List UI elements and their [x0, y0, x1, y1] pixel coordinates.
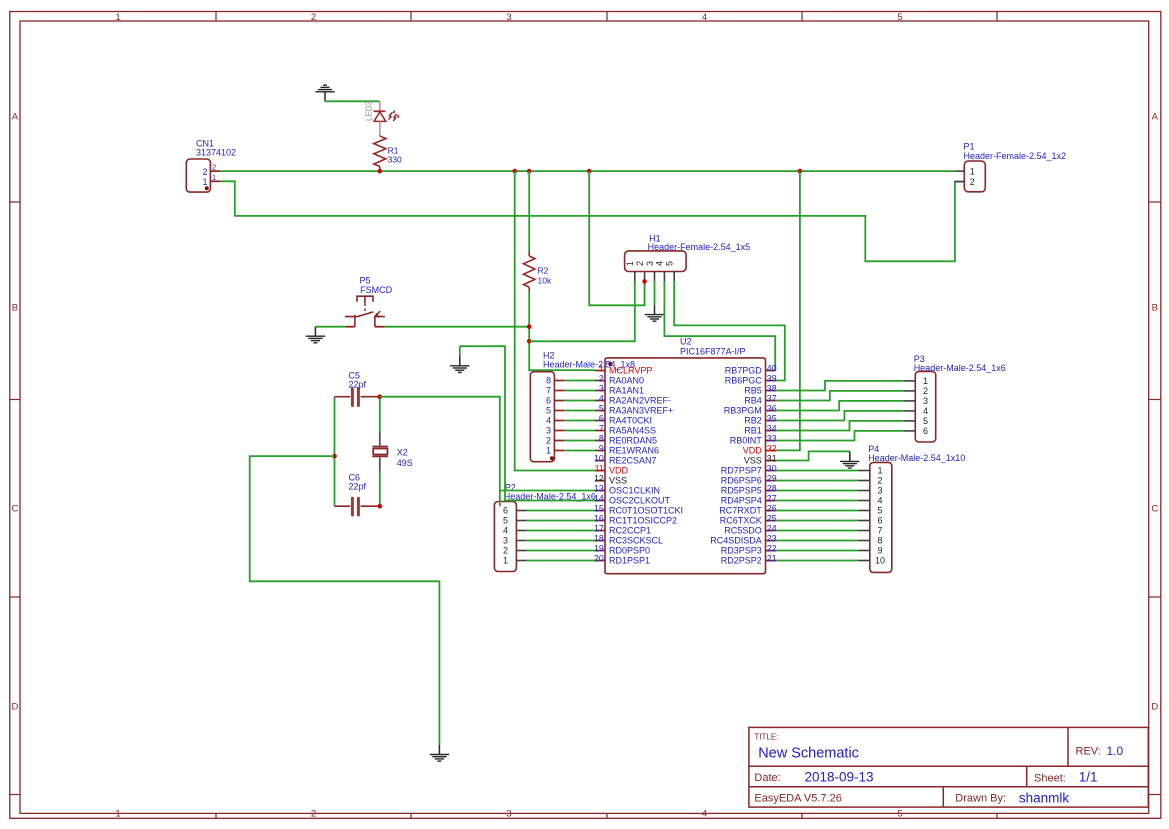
svg-text:21: 21	[767, 553, 777, 563]
CN1 pin 2 stub	[210, 170, 220, 172]
svg-text:3: 3	[503, 536, 508, 546]
P3 pin numbers	[923, 376, 928, 436]
header P3 box	[915, 371, 935, 442]
svg-text:4: 4	[599, 393, 604, 403]
svg-text:RD7PSP7: RD7PSP7	[721, 466, 762, 476]
svg-text:RC5SDO: RC5SDO	[724, 526, 762, 536]
svg-text:4: 4	[702, 12, 707, 23]
title block table	[749, 727, 1148, 807]
svg-text:RB5: RB5	[744, 386, 762, 396]
svg-text:EasyEDA V5.7.26: EasyEDA V5.7.26	[754, 793, 841, 805]
U2 pin stubs	[595, 371, 776, 561]
svg-text:RD3PSP3: RD3PSP3	[721, 546, 762, 556]
svg-text:FSMCD: FSMCD	[360, 285, 392, 295]
svg-text:RB3PGM: RB3PGM	[724, 406, 762, 416]
H1 pin numbers	[625, 261, 674, 266]
svg-text:1.0: 1.0	[1107, 744, 1124, 758]
svg-text:RC3SCKSCL: RC3SCKSCL	[609, 536, 663, 546]
svg-text:RA4T0CKI: RA4T0CKI	[609, 416, 652, 426]
svg-text:5: 5	[503, 516, 508, 526]
svg-text:D: D	[1151, 701, 1158, 712]
svg-text:RA5AN4SS: RA5AN4SS	[609, 426, 656, 436]
svg-text:49S: 49S	[397, 458, 413, 468]
wire U2 pin31 VSS to ground	[776, 451, 850, 460]
svg-text:Header-Female-2.54_1x2: Header-Female-2.54_1x2	[964, 151, 1067, 161]
svg-text:shanmlk: shanmlk	[1019, 791, 1070, 806]
junction P5/MCLR	[527, 324, 532, 329]
svg-text:2: 2	[546, 436, 551, 446]
CN1 polarity dot	[205, 186, 209, 190]
capacitor C5	[335, 389, 380, 406]
svg-text:PIC16F877A-I/P: PIC16F877A-I/P	[680, 347, 746, 357]
svg-text:A: A	[1152, 111, 1159, 122]
svg-text:1: 1	[625, 261, 635, 266]
ground (H1 pin3)	[645, 305, 664, 321]
svg-text:10: 10	[594, 453, 604, 463]
wire CN1 pin1 to P1 pin2	[220, 181, 964, 261]
svg-text:5: 5	[897, 809, 902, 820]
svg-text:3: 3	[506, 809, 511, 820]
wire P5 right to MCLR net	[385, 326, 530, 328]
svg-text:15: 15	[594, 503, 604, 513]
svg-text:1/1: 1/1	[1079, 770, 1098, 785]
svg-text:2: 2	[212, 163, 216, 172]
svg-text:330: 330	[388, 155, 402, 165]
svg-text:4: 4	[702, 809, 707, 820]
wire R2 bottom to U2 pin1 (MCLR)	[529, 291, 595, 370]
svg-text:RD2PSP2: RD2PSP2	[721, 556, 762, 566]
svg-text:36: 36	[767, 403, 777, 413]
svg-text:D: D	[11, 701, 18, 712]
svg-text:Header-Female-2.54_1x5: Header-Female-2.54_1x5	[648, 242, 751, 252]
wire ground to LED3	[325, 100, 380, 102]
svg-text:3: 3	[506, 12, 511, 23]
svg-text:RE2CSAN7: RE2CSAN7	[609, 456, 657, 466]
resistor R1	[374, 136, 386, 167]
svg-text:RB2: RB2	[744, 416, 762, 426]
svg-text:6: 6	[546, 396, 551, 406]
junction VDD-right/rail	[798, 169, 803, 174]
svg-text:RD6PSP6: RD6PSP6	[721, 476, 762, 486]
svg-text:B: B	[1152, 302, 1158, 313]
wire X2 top green	[379, 397, 381, 433]
svg-text:6: 6	[877, 516, 882, 526]
svg-text:RC1T1OSICCP2: RC1T1OSICCP2	[609, 516, 677, 526]
svg-text:10: 10	[875, 556, 885, 566]
header P2 box	[494, 502, 516, 572]
junction C6/X2	[378, 504, 383, 509]
svg-text:32: 32	[767, 443, 777, 453]
wire X2 bottom green	[379, 471, 381, 506]
svg-text:Header-Male-2.54_1x10: Header-Male-2.54_1x10	[868, 453, 965, 463]
svg-text:RA2AN2VREF-: RA2AN2VREF-	[609, 396, 671, 406]
svg-text:1: 1	[877, 466, 882, 476]
svg-text:RC6TXCK: RC6TXCK	[720, 516, 762, 526]
svg-text:4: 4	[923, 406, 928, 416]
svg-text:X2: X2	[397, 448, 408, 458]
svg-text:1: 1	[202, 177, 207, 187]
svg-text:27: 27	[767, 493, 777, 503]
svg-text:REV:: REV:	[1076, 746, 1101, 758]
svg-text:6: 6	[599, 413, 604, 423]
svg-text:9: 9	[877, 546, 882, 556]
wire OSC1 to U2 pin13	[500, 490, 595, 492]
svg-text:2: 2	[311, 12, 316, 23]
svg-text:19: 19	[594, 543, 604, 553]
P4 pin numbers	[875, 466, 885, 566]
svg-text:OSC1CLKIN: OSC1CLKIN	[609, 486, 660, 496]
svg-text:RD4PSP4: RD4PSP4	[721, 496, 762, 506]
svg-text:10k: 10k	[538, 276, 552, 286]
svg-text:RB6PGC: RB6PGC	[725, 376, 763, 386]
svg-text:4: 4	[546, 416, 551, 426]
svg-text:6: 6	[503, 506, 508, 516]
U2 pin names	[609, 366, 762, 566]
svg-text:OSC2CLKOUT: OSC2CLKOUT	[609, 496, 671, 506]
svg-text:38: 38	[767, 383, 777, 393]
svg-text:C: C	[1151, 503, 1158, 514]
svg-text:30: 30	[767, 463, 777, 473]
H2 pin1 marker dot	[550, 456, 554, 460]
svg-text:5: 5	[877, 506, 882, 516]
junction C5/X2	[378, 394, 383, 399]
svg-text:RA0AN0: RA0AN0	[609, 376, 644, 386]
svg-text:6: 6	[923, 426, 928, 436]
svg-text:33: 33	[767, 433, 777, 443]
svg-text:8: 8	[599, 433, 604, 443]
junction H1 pin2	[642, 279, 647, 284]
connector CN1 box	[186, 159, 210, 192]
H2 pin numbers	[546, 376, 551, 456]
ground (P5 left)	[306, 327, 325, 343]
svg-text:28: 28	[767, 483, 777, 493]
svg-text:1: 1	[115, 809, 120, 820]
svg-text:39: 39	[767, 373, 777, 383]
svg-text:22pf: 22pf	[349, 482, 367, 492]
svg-text:1: 1	[923, 376, 928, 386]
svg-text:2: 2	[599, 373, 604, 383]
svg-text:3: 3	[877, 486, 882, 496]
wire H1 pin5 to U2 pin39	[674, 282, 785, 381]
svg-text:VSS: VSS	[744, 456, 762, 466]
svg-text:29: 29	[767, 473, 777, 483]
wire VDD-right to U2 pin32	[776, 171, 800, 450]
wire rail riser to H1 pin2	[589, 171, 644, 305]
wire rail to R2 top	[528, 171, 530, 252]
svg-text:7: 7	[546, 386, 551, 396]
H2 pin stubs	[554, 381, 564, 451]
svg-text:22: 22	[767, 543, 777, 553]
svg-text:2: 2	[202, 167, 207, 177]
P2 pin numbers	[503, 506, 508, 566]
svg-text:Header-Male-2.54_1x6: Header-Male-2.54_1x6	[914, 363, 1006, 373]
svg-text:RB4: RB4	[744, 396, 762, 406]
frame row letters A-D	[11, 111, 1158, 712]
svg-text:17: 17	[594, 523, 604, 533]
svg-text:2: 2	[923, 386, 928, 396]
svg-text:4: 4	[877, 496, 882, 506]
wires P2 to U2 pins 15-20	[526, 511, 595, 561]
svg-text:U2: U2	[680, 337, 692, 347]
svg-text:P5: P5	[360, 275, 371, 285]
svg-text:31374102: 31374102	[196, 147, 236, 157]
svg-text:40: 40	[767, 363, 777, 373]
svg-text:RB0INT: RB0INT	[730, 436, 763, 446]
svg-text:11: 11	[595, 463, 604, 473]
P1 pin2 stub	[955, 181, 964, 183]
svg-text:5: 5	[665, 261, 675, 266]
wire P5 left to ground	[315, 326, 345, 328]
wires U2 RB5-RB0 to P3	[776, 381, 904, 441]
svg-text:Date:: Date:	[754, 772, 780, 784]
ground (bottom)	[430, 745, 449, 761]
svg-text:5: 5	[546, 406, 551, 416]
svg-text:31: 31	[767, 453, 777, 463]
svg-text:1: 1	[546, 446, 551, 456]
svg-text:2: 2	[877, 476, 882, 486]
wire H1 pin2 down	[644, 281, 646, 305]
svg-text:1: 1	[115, 12, 120, 23]
ground (inverted, above LED3)	[315, 85, 334, 101]
svg-text:RE0RDAN5: RE0RDAN5	[609, 436, 657, 446]
svg-text:RC4SDISDA: RC4SDISDA	[710, 536, 762, 546]
header P4 box	[870, 462, 892, 572]
svg-text:35: 35	[767, 413, 777, 423]
H1 pin stubs	[635, 272, 674, 282]
svg-text:RB1: RB1	[744, 426, 762, 436]
svg-text:RD1PSP1: RD1PSP1	[609, 556, 650, 566]
junction H1pin1/MCLR	[527, 339, 532, 344]
svg-text:VSS: VSS	[609, 476, 627, 486]
svg-text:RA1AN1: RA1AN1	[609, 386, 644, 396]
svg-text:8: 8	[877, 536, 882, 546]
svg-text:2: 2	[311, 809, 316, 820]
svg-text:25: 25	[767, 513, 777, 523]
svg-text:LED3: LED3	[365, 100, 374, 121]
svg-text:5: 5	[897, 12, 902, 23]
svg-text:26: 26	[767, 503, 777, 513]
svg-text:C: C	[11, 503, 18, 514]
P2 pin stubs	[516, 511, 526, 561]
svg-text:3: 3	[599, 383, 604, 393]
svg-text:16: 16	[594, 513, 604, 523]
crystal X2	[372, 433, 388, 472]
svg-text:Drawn By:: Drawn By:	[955, 793, 1006, 805]
svg-text:1: 1	[970, 167, 975, 177]
svg-text:RD5PSP5: RD5PSP5	[721, 486, 762, 496]
svg-text:RD0PSP0: RD0PSP0	[609, 546, 650, 556]
P4 pin stubs	[858, 471, 870, 561]
svg-text:34: 34	[767, 423, 777, 433]
svg-text:4: 4	[503, 526, 508, 536]
wire H1 pin3 to ground	[654, 282, 656, 305]
LED LED3	[374, 101, 400, 136]
svg-text:4: 4	[655, 261, 665, 266]
svg-text:20: 20	[594, 553, 604, 563]
svg-text:2018-09-13: 2018-09-13	[805, 770, 874, 785]
header H2 box	[530, 372, 554, 462]
junction R1/rail	[378, 169, 383, 174]
U2 pin1 marker dot	[608, 362, 612, 366]
wire C5 left vertical	[334, 397, 336, 507]
svg-text:3: 3	[923, 396, 928, 406]
svg-text:2: 2	[635, 261, 645, 266]
svg-text:A: A	[12, 111, 19, 122]
frame column numbers 1-5	[115, 12, 902, 820]
wires H2 to U2 pins 2-9	[564, 381, 595, 451]
svg-text:7: 7	[599, 423, 604, 433]
svg-text:22pf: 22pf	[349, 380, 367, 390]
svg-text:5: 5	[923, 416, 928, 426]
svg-text:18: 18	[594, 533, 604, 543]
ground (OSC2)	[450, 356, 469, 373]
svg-text:24: 24	[767, 523, 777, 533]
IC U2 box	[605, 358, 766, 574]
svg-text:RC7RXDT: RC7RXDT	[719, 506, 762, 516]
svg-text:23: 23	[767, 533, 777, 543]
svg-text:Header-Male-2.54_1x8: Header-Male-2.54_1x8	[543, 360, 635, 370]
junction caps left	[332, 454, 337, 459]
CN1 pin 1 stub	[210, 180, 220, 182]
svg-text:2: 2	[970, 177, 975, 187]
P3 pin stubs	[903, 381, 915, 431]
capacitor C6	[335, 498, 380, 515]
junction H1pin2 riser/rail	[587, 169, 592, 174]
svg-text:New Schematic: New Schematic	[758, 746, 859, 762]
ground (VSS pin31)	[840, 451, 859, 468]
frame column ticks	[216, 12, 997, 819]
svg-text:1: 1	[212, 173, 216, 182]
wires U2 PSP to P4	[776, 471, 858, 561]
svg-text:VDD: VDD	[743, 446, 763, 456]
svg-text:7: 7	[877, 526, 882, 536]
svg-text:RC2CCP1: RC2CCP1	[609, 526, 651, 536]
svg-text:3: 3	[546, 426, 551, 436]
wire H1 pin1 to MCLR net	[529, 282, 635, 342]
header P1 box	[964, 161, 985, 192]
svg-text:RA3AN3VREF+: RA3AN3VREF+	[609, 406, 673, 416]
svg-text:VDD: VDD	[609, 466, 629, 476]
P1 pin1 stub	[955, 170, 965, 172]
svg-text:2: 2	[503, 546, 508, 556]
header H1 box	[625, 251, 687, 272]
svg-text:Sheet:: Sheet:	[1034, 773, 1066, 785]
svg-text:RC0T1OSOT1CKI: RC0T1OSOT1CKI	[609, 506, 683, 516]
svg-text:RE1WRAN6: RE1WRAN6	[609, 446, 659, 456]
resistor R2	[528, 252, 530, 256]
junction R2/rail	[527, 169, 532, 174]
wire H1 pin4 to U2 pin40	[664, 282, 775, 371]
wire OSC2 ground to U2 pin14	[460, 346, 595, 500]
wire OSC1 net	[380, 397, 500, 507]
svg-text:R2: R2	[538, 266, 549, 276]
svg-text:12: 12	[594, 473, 604, 483]
wire VCC rail	[220, 170, 954, 172]
svg-text:TITLE:: TITLE:	[754, 733, 778, 742]
svg-text:5: 5	[599, 403, 604, 413]
svg-text:37: 37	[767, 393, 777, 403]
junction VDD-left/rail	[512, 169, 517, 174]
svg-text:RB7PGD: RB7PGD	[725, 366, 763, 376]
svg-text:B: B	[12, 302, 18, 313]
U2 pin numbers	[594, 363, 777, 563]
wire OSC2 ground stem	[459, 346, 461, 356]
wire VDD-left to U2 pin11	[515, 171, 595, 470]
svg-text:1: 1	[503, 556, 508, 566]
wire bottom ground run	[250, 456, 440, 745]
svg-text:9: 9	[599, 443, 604, 453]
pushbutton P5	[345, 296, 385, 327]
svg-text:3: 3	[645, 261, 655, 266]
svg-text:8: 8	[546, 376, 551, 386]
frame row ticks	[10, 202, 1161, 795]
